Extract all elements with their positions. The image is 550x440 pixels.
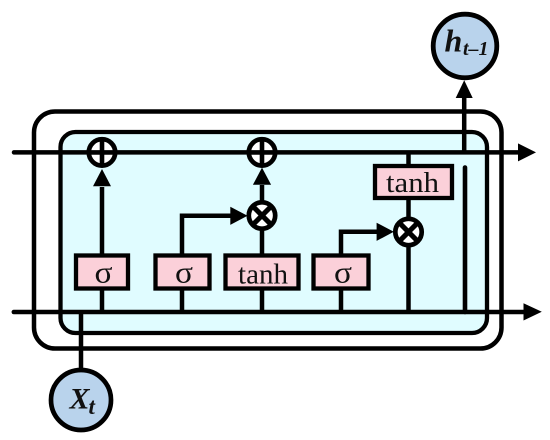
svg-text:σ: σ [334,255,352,290]
wire: sigma2 elbow with arrow into multiply node [182,207,248,257]
svg-text:X: X [69,383,91,416]
node X_t circle [51,370,111,430]
gate box sigma2 [156,256,210,289]
node multiply2 [395,219,421,245]
svg-text:tanh: tanh [238,259,288,291]
node h_t-1 circle [433,14,497,78]
wire: tanh1 column [260,216,265,314]
wire: output arrow up to h circle [456,80,473,153]
svg-text:h: h [445,23,463,59]
wire: sigma3 elbow with arrow into multiply2 [341,223,394,257]
svg-text:tanh: tanh [386,167,440,199]
wire: bottom hidden-state line with right arrow [14,303,542,320]
wire: right vertical link [463,168,468,313]
svg-text:σ: σ [175,255,193,290]
gate box sigma3 [314,256,369,289]
svg-text:σ: σ [95,255,113,290]
wire: multiply2 down to bottom line [406,237,411,314]
wire: tanh2 column from top line down to multiply2 [406,152,411,227]
outer cell border [34,112,502,349]
node plus1 [89,139,115,165]
svg-text:t: t [89,394,96,419]
gate box sigma1 [76,256,128,289]
node plus2 [249,139,275,165]
wire: X_t input riser [79,312,84,370]
wire: top cell-state line with right arrow [14,143,536,161]
wire: sigma3 column [339,257,344,314]
wire: sigma2 column [180,257,185,314]
node multiply1 [249,202,275,228]
wire: sigma1 column with arrow into plus node [93,169,111,314]
gate box tanh2 [375,166,452,198]
wire: multiply1 up to plus2 with arrow [253,168,271,216]
inner cell body [61,132,488,333]
gate box tanh1 [226,256,299,289]
svg-text:t–1: t–1 [463,38,489,60]
